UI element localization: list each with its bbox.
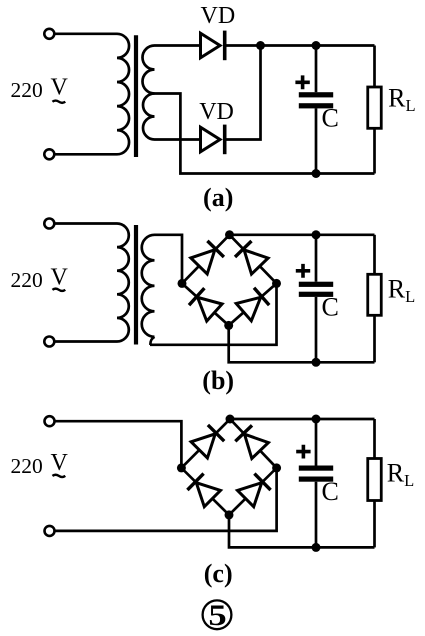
transformer T core (a): [134, 35, 138, 157]
junction bridge right vertex (b): [272, 279, 281, 288]
wire top rail (b): [230, 233, 375, 236]
wire VD2 cathode up to top rail (a): [225, 46, 261, 140]
bridge diamond wires (b): [182, 235, 277, 326]
junction bridge left vertex (c): [177, 463, 186, 472]
junction cap top (c): [312, 415, 321, 424]
wire secondary bottom to VD2 anode: [155, 138, 202, 141]
junction cap top (a): [312, 41, 321, 50]
junction bridge bottom vertex (b): [224, 321, 233, 330]
wire secondary top to bridge left vertex (b): [155, 235, 183, 284]
transformer T secondary winding (b): [142, 235, 155, 337]
terminal AC input top (c): [45, 416, 55, 426]
wire C to bottom rail (a): [315, 108, 318, 173]
junction bridge bottom vertex (c): [225, 510, 234, 519]
capacitor C (b) (polarized): [299, 282, 333, 297]
wire RL to bottom rail (c): [373, 501, 376, 548]
junction bridge top vertex (c): [226, 415, 235, 424]
diode D1 (b) left->top: [191, 241, 224, 274]
resistor RL (c): [368, 459, 382, 501]
diode D3 (b) bottom->left: [189, 288, 222, 321]
diode VD1: [201, 31, 225, 61]
wire top rail to C (b): [315, 235, 318, 282]
junction cap bottom (c): [312, 543, 321, 552]
svg-text:V: V: [51, 450, 69, 476]
wire top rail (c): [230, 418, 375, 421]
terminal AC input bottom (a): [44, 149, 54, 159]
svg-text:VD: VD: [201, 3, 236, 29]
wire RL to bottom rail (a): [373, 128, 376, 173]
transformer T primary winding (b): [56, 224, 129, 342]
svg-text:220: 220: [11, 78, 43, 102]
wire top rail to RL (c): [373, 419, 376, 459]
plus polarity mark: [295, 75, 309, 89]
diode VD2: [201, 125, 225, 155]
wire secondary bottom to bridge right vertex (b): [150, 283, 277, 344]
svg-text:(c): (c): [204, 559, 233, 588]
diode D4 (c) bottom->right: [238, 474, 271, 507]
svg-text:5: 5: [208, 599, 226, 632]
wire center tap to bottom rail (a): [155, 94, 375, 174]
svg-text:C: C: [322, 292, 339, 321]
wire bridge bottom to bottom rail (b): [229, 325, 375, 362]
transformer T core (b): [134, 225, 138, 345]
wire top rail to C (c): [315, 419, 318, 466]
svg-text:220: 220: [11, 268, 43, 292]
label AC tilde (c): [52, 475, 65, 477]
terminal AC input top (a): [44, 29, 54, 39]
wire C to bottom rail (c): [315, 482, 318, 548]
capacitor C (c) (polarized): [299, 466, 333, 482]
wire top rail to RL (a): [373, 46, 376, 88]
plus polarity mark: [296, 445, 310, 459]
terminal AC input bottom (c): [45, 526, 55, 536]
label AC tilde (a): [52, 101, 65, 103]
diode D2 (c) right->top: [235, 425, 268, 458]
junction cap bottom (b): [312, 358, 321, 367]
wire AC top to bridge left vertex (c): [56, 421, 182, 468]
wire C to bottom rail (b): [315, 297, 318, 362]
label AC tilde (b): [52, 289, 65, 291]
svg-text:V: V: [51, 75, 69, 101]
junction bridge right vertex (c): [272, 463, 281, 472]
capacitor C (a) (polarized): [299, 92, 333, 108]
diode D3 (c) bottom->left: [187, 474, 220, 507]
junction bridge top vertex (b): [225, 230, 234, 239]
junction VD2-cathode / top rail (a): [256, 41, 265, 50]
resistor RL (a): [368, 87, 382, 128]
svg-text:(a): (a): [203, 183, 233, 212]
terminal AC input bottom (b): [44, 337, 54, 347]
resistor RL (b): [368, 274, 382, 315]
wire AC bottom to bridge right vertex (c): [56, 468, 277, 531]
bridge diamond wires (c): [181, 419, 276, 515]
plus polarity mark: [296, 264, 310, 278]
svg-text:C: C: [322, 104, 339, 133]
wire top rail to RL (b): [373, 235, 376, 274]
diode D4 (b) bottom->right: [236, 288, 269, 321]
diode D2 (b) right->top: [235, 241, 268, 274]
svg-text:VD: VD: [199, 99, 234, 125]
wire top rail to C (a): [315, 46, 318, 93]
diode D1 (c) left->top: [191, 425, 224, 458]
terminal AC input top (b): [44, 219, 54, 229]
wire top rail (a): [225, 44, 375, 47]
transformer T secondary lower winding (a): [143, 94, 155, 140]
figure number 5 (circled): [203, 599, 232, 632]
svg-text:220: 220: [11, 454, 43, 478]
svg-text:V: V: [51, 264, 69, 290]
svg-text:C: C: [322, 477, 339, 506]
transformer T secondary upper winding (a): [143, 46, 155, 94]
junction cap top (b): [312, 230, 321, 239]
wire secondary top to VD1 anode: [155, 44, 202, 47]
wire RL to bottom rail (b): [373, 315, 376, 362]
svg-text:(b): (b): [202, 366, 234, 395]
wire bridge bottom to bottom rail (c): [229, 515, 375, 548]
junction bridge left vertex (b): [178, 279, 187, 288]
junction cap bottom (a): [312, 169, 321, 178]
transformer T primary winding (a): [56, 34, 130, 155]
